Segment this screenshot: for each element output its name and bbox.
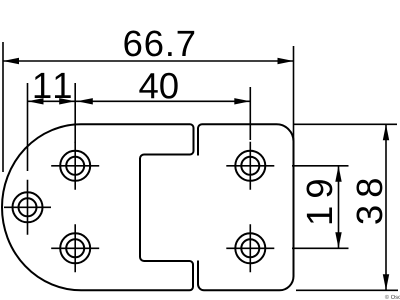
extension line 11 left [27, 83, 29, 171]
extension line 66.7 left [2, 42, 4, 172]
arrowhead 40 right [234, 98, 250, 104]
extension line 66.7 right [293, 46, 295, 146]
extension line 40 right [249, 87, 251, 140]
arrowhead 66.7 left [3, 58, 19, 64]
dimension line 19 [338, 166, 340, 249]
dimension text 38 (rotated) [357, 179, 383, 224]
hole bottom-left outer circle [60, 233, 90, 263]
hinge right leaf outline [198, 124, 294, 290]
extension line 11/40 shared [74, 83, 76, 143]
dimension text 11 [35, 73, 71, 98]
hole top-right inner circle [241, 157, 259, 175]
extension line 38 top [294, 123, 398, 125]
hole bottom-right crosshair [226, 224, 274, 272]
dimension text 66.7 [124, 31, 194, 57]
arrowhead 40 left [77, 98, 93, 104]
hole left inner circle [19, 198, 37, 216]
arrowhead 38 top [383, 124, 389, 140]
hole bottom-left crosshair [51, 224, 99, 272]
copyright text [385, 295, 400, 299]
hole bottom-left inner circle [66, 239, 84, 257]
hole top-left outer circle [60, 151, 90, 181]
dimension line 66.7 [3, 60, 294, 62]
arrowhead 11 left [28, 98, 44, 104]
extension line 38 bottom [296, 289, 398, 291]
arrowhead 11 right [59, 98, 75, 104]
hole left crosshair [4, 180, 51, 235]
hole left outer circle [13, 192, 43, 222]
hole top-right crosshair [226, 142, 274, 190]
arrowhead 19 top [335, 166, 341, 182]
arrowhead 19 bottom [335, 232, 341, 248]
hole top-right outer circle [235, 151, 265, 181]
hole bottom-right outer circle [235, 233, 265, 263]
hole top-left crosshair [51, 142, 99, 190]
dimension text 19 (rotated) [307, 180, 333, 223]
dimension text 40 [139, 73, 177, 99]
extension line 19 top row [292, 165, 349, 167]
dimension line 11 and 40 [28, 100, 251, 102]
extension line 19 bottom row [292, 247, 349, 249]
arrowhead 38 bottom [383, 274, 389, 290]
hole top-left inner circle [66, 157, 84, 175]
hole bottom-right inner circle [241, 239, 259, 257]
hinge left leaf outline [2, 124, 194, 290]
dimension line 38 [385, 124, 387, 290]
arrowhead 66.7 right [278, 58, 294, 64]
